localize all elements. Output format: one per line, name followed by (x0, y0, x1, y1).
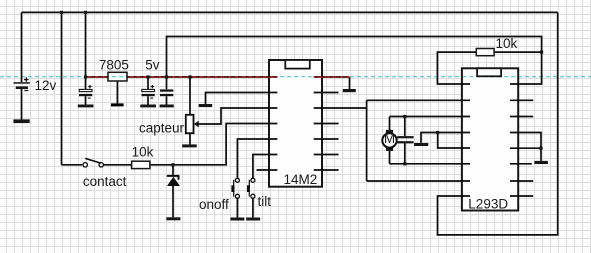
ground C3 (160, 105, 174, 108)
wire onoff bottom (236, 198, 238, 217)
wire 5v rail segment input to 7805 (86, 76, 109, 78)
wire 14M2 right stub row5 (314, 138, 339, 140)
junction top rail / contact branch (60, 11, 63, 14)
wire L293D gnd left (421, 133, 470, 143)
wire 14M2 right stub row2 (314, 92, 339, 94)
wire motor cap leads (404, 117, 406, 164)
svg-text:10k: 10k (496, 36, 518, 51)
wire L293D gnd right pin (510, 147, 541, 149)
wire 5v riser and top distribution (167, 37, 542, 78)
junction contact line / diode (171, 163, 174, 166)
wire C1 leads (85, 77, 87, 105)
wire diode top lead (172, 165, 174, 175)
svg-text:contact: contact (83, 174, 127, 189)
junction 5v rail / C3 riser (165, 75, 168, 78)
ground tilt (246, 218, 260, 221)
svg-text:M: M (384, 131, 395, 146)
wire L293D right stub row3 (510, 116, 533, 118)
svg-text:10k: 10k (132, 144, 154, 159)
regulator 7805 (108, 72, 127, 81)
svg-text:5v: 5v (145, 57, 160, 72)
wire L293D right stub row7 (510, 180, 533, 182)
wire net A to L293D pin2 (367, 99, 470, 101)
switch tilt (247, 178, 255, 198)
wire 12v to contact vertical (61, 12, 63, 164)
svg-text:14M2: 14M2 (284, 172, 318, 187)
ground motor cap (414, 143, 428, 146)
diode zener (167, 176, 180, 186)
wire L293D right stub row2 (510, 99, 533, 101)
wire tilt bottom (252, 198, 254, 217)
motor M1 (382, 130, 396, 151)
wire 5v rail segment 14M2 pin14 to ground (314, 76, 350, 78)
ground onoff (230, 218, 244, 221)
wire 12v to 7805 input (85, 12, 87, 77)
wire resistor right lead (494, 51, 541, 53)
potentiometer capteur (186, 115, 199, 133)
wire contact line left (62, 164, 83, 166)
wire motor top rail (390, 116, 471, 118)
capacitor motor (397, 136, 413, 143)
IC 14M2 (269, 60, 322, 187)
capacitor C2 electrolytic (142, 85, 155, 98)
wire capteur top lead (189, 77, 191, 115)
switch contact (83, 158, 103, 167)
capacitor C1 electrolytic (79, 85, 92, 98)
wire contact to resistor (103, 164, 131, 166)
svg-text:L293D: L293D (468, 197, 508, 212)
wire L293D gnd right loop (510, 133, 541, 161)
ground battery (13, 119, 29, 123)
svg-text:12v: 12v (35, 78, 57, 93)
wire motor bottom rail (390, 163, 471, 165)
wire 14M2 gnd stem right (349, 77, 351, 89)
wire 14M2 right stub row7 (314, 169, 339, 171)
junction top rail / regulator branch (84, 11, 87, 14)
ground C2 (140, 105, 156, 108)
wire net A 14M2 pin to vertical (314, 107, 367, 109)
svg-text:7805: 7805 (99, 57, 129, 72)
resistor 10k top right (476, 49, 494, 56)
ground L293D right (534, 161, 548, 164)
wire 10k right to L293D pin1 right (510, 52, 542, 84)
ground C1 (78, 105, 94, 108)
wire 14M2 tilt pin (253, 155, 278, 179)
junction 10k resistor node (540, 51, 543, 54)
junction L293D ground node right (539, 147, 542, 150)
capacitor C3 ceramic (160, 89, 173, 96)
IC L293D (462, 68, 518, 210)
wire net A vertical (366, 100, 368, 181)
wire capteur wiper to 14M2 (198, 108, 278, 124)
junction 5v rail / capteur (188, 75, 191, 78)
junction 5v rail / C1 (84, 75, 87, 78)
wire L293D right stub row6 (510, 163, 532, 165)
svg-text:capteur: capteur (139, 121, 185, 136)
wire top 12v rail (22, 11, 558, 13)
wire 10k left to L293D pin1 left (437, 52, 476, 84)
wire resistor to pin B7 corner (150, 124, 278, 165)
ground diode (166, 217, 180, 220)
wire battery top lead (21, 12, 23, 82)
ground 14M2 pin14 (343, 89, 356, 92)
wire 12v supply to L293D pin8 (438, 12, 558, 235)
wire net A to L293D pin7 (367, 180, 470, 182)
battery 12v (14, 77, 30, 90)
wire battery bottom lead (21, 88, 23, 120)
junction L293D ground node left (436, 131, 439, 134)
wire C2 leads (147, 77, 149, 105)
resistor 10k contact (132, 161, 150, 168)
switch onoff (231, 178, 239, 198)
wire diode bottom lead (172, 185, 174, 217)
wire 14M2 pin2 to ground (206, 93, 278, 105)
svg-text:tilt: tilt (258, 194, 272, 209)
wire 14M2 right stub row4 (314, 123, 339, 125)
svg-text:onoff: onoff (199, 197, 229, 212)
wire C3 leads (166, 77, 168, 105)
wire 14M2 onoff pin (237, 139, 277, 178)
ground 14M2 pin2 (199, 104, 213, 107)
wire capteur bottom lead (189, 133, 191, 144)
wire motor leads (389, 117, 391, 164)
guide line cyan dashed (0, 76, 591, 78)
wire 7805 ground lead (116, 81, 118, 104)
wire L293D right stub row8 (510, 195, 533, 197)
wire 5v rail segment 7805 to 14M2 pin1 (127, 76, 277, 78)
junction 5v rail / C2 (146, 75, 149, 78)
ground 7805 (111, 103, 124, 106)
wire 14M2 right stub row6 (314, 154, 339, 156)
junction motor top / cap (403, 115, 406, 118)
wire L293D gnd left branch (438, 133, 470, 149)
ground capteur (182, 144, 197, 147)
junction motor bottom / cap (403, 162, 406, 165)
wire 14M2 left stub pin7 (257, 169, 278, 171)
